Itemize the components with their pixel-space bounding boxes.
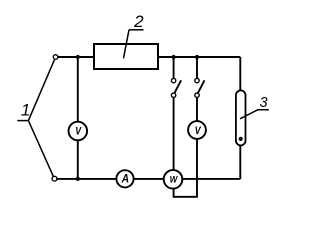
svg-text:3: 3 [259, 95, 267, 111]
svg-text:A: A [121, 173, 130, 186]
svg-text:1: 1 [21, 101, 30, 120]
svg-text:2: 2 [133, 12, 144, 31]
svg-text:W: W [170, 174, 179, 185]
